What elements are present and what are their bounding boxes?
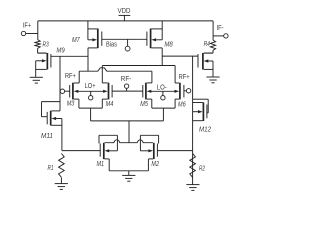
wire: M12 source down to R2 node — [192, 99, 194, 150]
wire: left pair tap down — [90, 108, 92, 121]
svg-text:RF+: RF+ — [65, 73, 76, 80]
wire: right pair tap down — [162, 108, 164, 121]
resistor R4 — [204, 40, 216, 50]
port Bias terminal — [106, 39, 130, 51]
transistor M3 — [67, 71, 80, 108]
ground under M1/M2 — [122, 175, 135, 181]
transistor M1 — [97, 135, 118, 171]
transistor M4 — [102, 66, 113, 109]
ground under M9 — [30, 77, 43, 83]
wire: gate bias M8 source to M10 gate — [162, 55, 198, 57]
svg-text:M9: M9 — [56, 47, 64, 54]
transistor M8 — [147, 21, 173, 49]
resistor R1 — [48, 154, 65, 178]
port RF+ right terminal — [179, 74, 191, 93]
port RF- terminal — [121, 76, 132, 91]
wire: R1 node to M1 gate — [62, 150, 100, 152]
svg-text:M2: M2 — [151, 161, 159, 168]
wire: tail node down to M1/M2 drains — [128, 121, 130, 143]
svg-text:M5: M5 — [140, 101, 148, 108]
wire: M2 gate to R2 node — [157, 150, 192, 152]
wire: M1 drain to M2 drain with crossover hops — [105, 140, 153, 143]
svg-text:M4: M4 — [106, 101, 114, 108]
svg-text:RF+: RF+ — [179, 74, 190, 81]
node LO- bulk line M5-M6 — [147, 90, 179, 93]
wire: left output to M3/M5 drains (with hop) — [79, 68, 152, 71]
port LO- terminal — [157, 84, 168, 100]
ground under M10 — [206, 77, 219, 83]
svg-text:IF+: IF+ — [23, 23, 32, 30]
wire: bias line M7 gate to M8 gate — [102, 38, 147, 40]
svg-text:LO+: LO+ — [85, 83, 96, 90]
svg-text:R1: R1 — [48, 165, 54, 172]
wire: branch down to M12 — [192, 56, 194, 99]
wire: M1/M2 source join — [109, 170, 148, 172]
node LO+ bulk line M3-M4 — [74, 90, 108, 93]
wire: right output M4 to M6 drains — [102, 65, 175, 67]
ground under R1 — [55, 184, 68, 190]
wire: M5/M6 source join — [152, 107, 175, 109]
resistor R2 — [190, 154, 205, 178]
transistor M11 — [41, 102, 62, 140]
port IF- terminal — [213, 25, 228, 38]
transistor M9 — [36, 47, 65, 77]
transistor M7 — [72, 21, 102, 48]
transistor M10 — [198, 53, 213, 77]
port IF+ terminal — [21, 23, 38, 36]
power VDD symbol — [118, 8, 131, 21]
wire: R4 bottom to M10 drain — [204, 50, 213, 53]
svg-text:Bias: Bias — [106, 41, 117, 48]
svg-text:M7: M7 — [72, 37, 81, 44]
transistor M5 — [140, 71, 152, 108]
svg-text:R3: R3 — [43, 42, 49, 49]
wire: M11 source down to R1 node — [61, 119, 63, 151]
svg-text:VDD: VDD — [118, 8, 131, 15]
transistor M6 — [175, 66, 186, 109]
svg-text:R2: R2 — [199, 166, 205, 173]
wire: IF- node vertical — [212, 21, 214, 40]
svg-text:M6: M6 — [178, 101, 186, 108]
svg-text:M3: M3 — [67, 101, 75, 108]
wire: RF- line M4 gate to M5 gate — [112, 90, 143, 92]
svg-text:M12: M12 — [199, 126, 211, 133]
wire: R3 bottom to M9 drain — [38, 48, 47, 53]
wire: R2 to ground — [192, 151, 194, 185]
svg-text:IF-: IF- — [217, 25, 225, 32]
wire: common quad source line — [91, 120, 164, 122]
wire: M3/M4 source join — [79, 107, 102, 109]
svg-text:M8: M8 — [164, 42, 172, 49]
ground under R2 — [186, 185, 199, 191]
wire: VDD top rail — [38, 20, 213, 22]
wire: R1 to ground — [60, 178, 62, 184]
wire: IF+ node vertical — [37, 21, 39, 40]
transistor M12 — [193, 99, 211, 133]
wire: source join to ground — [128, 171, 130, 176]
svg-text:M11: M11 — [41, 133, 53, 140]
svg-text:R4: R4 — [204, 41, 210, 48]
svg-text:RF-: RF- — [121, 76, 132, 83]
svg-text:M1: M1 — [97, 161, 105, 168]
resistor R3 — [35, 40, 49, 49]
wire: M8 source down to right output node — [161, 48, 163, 66]
transistor M2 — [140, 135, 159, 171]
wire: M7 source down to left output node — [87, 48, 89, 71]
wire: branch down to M11 — [59, 56, 61, 101]
svg-text:LO-: LO- — [157, 84, 168, 91]
port LO+ terminal — [85, 83, 96, 100]
port RF+ left terminal — [60, 73, 76, 93]
wire: gate bias M7 source to M9 gate — [51, 55, 88, 57]
